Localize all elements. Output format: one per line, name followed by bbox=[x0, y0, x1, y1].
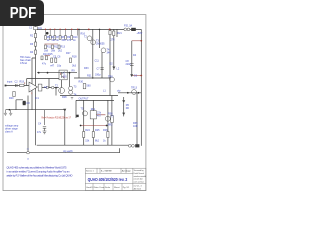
svg-text:0.5mA: 0.5mA bbox=[20, 62, 27, 65]
node J20 bbox=[106, 125, 108, 127]
wire protection verticals bbox=[76, 100, 108, 145]
node RD6 bbox=[71, 29, 72, 30]
svg-text:article by P.J. Walker of the: article by P.J. Walker of the Acoustical… bbox=[7, 173, 73, 177]
wire red rows mid bbox=[45, 44, 59, 56]
svg-text:Scale: Scale bbox=[105, 187, 111, 189]
BLUE LABELS bbox=[5, 25, 143, 161]
svg-text:R24: R24 bbox=[85, 129, 90, 132]
wire r38 branch bbox=[111, 96, 113, 146]
svg-text:R38: R38 bbox=[108, 113, 113, 116]
wire T1 base feed bbox=[62, 73, 70, 88]
wire output down to fuse bbox=[136, 93, 138, 146]
resistor R2 bbox=[34, 34, 36, 38]
svg-text:330: 330 bbox=[62, 39, 67, 42]
svg-text:8R2: 8R2 bbox=[108, 124, 113, 127]
svg-text:405: 405 bbox=[63, 76, 68, 79]
resistor R3 bbox=[34, 42, 36, 46]
node RD7 bbox=[77, 29, 78, 30]
svg-text:R19: R19 bbox=[20, 81, 25, 84]
svg-text:A + MAYBE: A + MAYBE bbox=[101, 170, 112, 173]
ground GND2 bbox=[9, 110, 12, 116]
wire gray drop 6 bbox=[71, 29, 73, 35]
drawing frame bbox=[3, 15, 146, 191]
resistor R19 input series bbox=[20, 84, 25, 86]
node RD1 bbox=[45, 29, 46, 30]
node J6 bbox=[127, 92, 129, 94]
wire zobel line bbox=[6, 109, 65, 111]
node J11 bbox=[109, 77, 110, 78]
svg-text:R4: R4 bbox=[30, 51, 34, 54]
svg-text:R25: R25 bbox=[95, 129, 100, 132]
wire left bias vertical bbox=[32, 58, 36, 110]
svg-text:340: 340 bbox=[107, 52, 112, 55]
svg-text:D6: D6 bbox=[126, 107, 130, 110]
resistor R9 bbox=[65, 36, 67, 40]
ground GND1 bbox=[4, 110, 7, 116]
wire protection rail bbox=[76, 99, 114, 101]
node J1 bbox=[46, 32, 49, 35]
wire mid horizontal TR1 bbox=[37, 72, 77, 74]
node J3 bbox=[99, 29, 101, 31]
transistor TR6b bbox=[91, 40, 96, 45]
svg-text:10n: 10n bbox=[38, 27, 43, 30]
svg-text:R11: R11 bbox=[47, 46, 52, 49]
resistor R22 bbox=[113, 31, 115, 36]
transistor TR7 bbox=[101, 48, 106, 53]
TRANSISTORS bbox=[59, 36, 137, 121]
svg-text:+50V: +50V bbox=[137, 32, 143, 35]
svg-text:2k2: 2k2 bbox=[58, 50, 63, 53]
wire red base drops bbox=[61, 73, 65, 79]
node J5 bbox=[9, 109, 11, 111]
resistor R21 bbox=[109, 31, 111, 35]
wire col x99 bbox=[100, 29, 103, 78]
wire bottom rail -50V bbox=[37, 144, 129, 146]
svg-text:R27: R27 bbox=[66, 52, 71, 55]
wire op-amp out bbox=[42, 87, 59, 89]
wire left input vertical bbox=[35, 26, 37, 58]
svg-text:L2: L2 bbox=[117, 68, 120, 71]
svg-text:Red = Protection PCB M12396 re: Red = Protection PCB M12396 rev 3 ? bbox=[42, 116, 72, 120]
COMPONENTS bbox=[13, 27, 115, 138]
relay RL1 box bbox=[90, 111, 96, 119]
svg-text:47u: 47u bbox=[42, 63, 47, 66]
svg-text:C4: C4 bbox=[38, 123, 42, 126]
node J12 bbox=[88, 29, 90, 31]
title text bbox=[88, 177, 128, 182]
wire cap branch bbox=[16, 100, 23, 110]
node J15 bbox=[140, 40, 142, 42]
wire input line bbox=[6, 85, 30, 87]
wire diode drop bbox=[64, 110, 66, 146]
svg-text:3k3: 3k3 bbox=[72, 65, 77, 68]
transistor TR12 bbox=[105, 116, 110, 121]
svg-text:Keith Snook: Keith Snook bbox=[134, 172, 144, 175]
node J8 black square terminal bbox=[76, 115, 78, 117]
capacitor C8 bbox=[130, 64, 134, 66]
node J18 bbox=[47, 72, 49, 74]
svg-text:10p: 10p bbox=[57, 65, 62, 68]
node J2 bbox=[78, 29, 80, 31]
PDF badge bbox=[0, 0, 44, 26]
wire gray drop 1 bbox=[44, 29, 46, 35]
svg-text:R20: R20 bbox=[9, 97, 14, 100]
resistor R8 bbox=[59, 36, 61, 40]
svg-text:R33: R33 bbox=[84, 67, 89, 70]
title block small text bbox=[86, 170, 131, 189]
svg-text:QUAD 405/102/520 rev. 2: QUAD 405/102/520 rev. 2 bbox=[88, 177, 128, 182]
fuse FS1 top bbox=[124, 28, 136, 31]
svg-text:rev 02 - 4: rev 02 - 4 bbox=[134, 185, 142, 188]
node J14 bbox=[140, 75, 142, 77]
wire gray drop 7 bbox=[77, 29, 79, 35]
svg-text:TR13: TR13 bbox=[131, 87, 138, 90]
node J13 bbox=[109, 29, 111, 31]
svg-text:appr: appr bbox=[127, 170, 131, 173]
svg-text:47u: 47u bbox=[37, 131, 42, 134]
svg-text:C6: C6 bbox=[57, 56, 61, 59]
svg-text:R2: R2 bbox=[30, 35, 34, 38]
wire bottom earth rail bbox=[7, 148, 120, 152]
resistor R4 bbox=[34, 50, 36, 54]
node RD5 bbox=[65, 29, 66, 30]
svg-text:o/p: o/p bbox=[117, 90, 121, 93]
wire gray drop 2 bbox=[49, 29, 51, 35]
node J7 bbox=[138, 92, 140, 94]
resistor R7 bbox=[54, 36, 56, 40]
fuse FS2 bottom bbox=[128, 144, 139, 147]
capacitor C2 input bbox=[15, 84, 17, 87]
svg-text:330p: 330p bbox=[95, 74, 101, 77]
capacitor network box bbox=[38, 84, 42, 91]
svg-text:QUAD 405 schematic as publishe: QUAD 405 schematic as published in Wirel… bbox=[7, 166, 68, 170]
svg-text:Date: Draw: Date: Draw bbox=[94, 186, 105, 189]
transistor TR5 bbox=[69, 90, 73, 94]
wire gray drop 4 bbox=[59, 29, 61, 35]
svg-text:o/p earth: o/p earth bbox=[63, 150, 73, 153]
wire col x117 bbox=[116, 29, 118, 37]
svg-text:C3: C3 bbox=[27, 102, 31, 105]
svg-text:D4: D4 bbox=[133, 54, 137, 57]
resistor R38 bbox=[111, 116, 114, 123]
node J17 bbox=[38, 72, 40, 74]
node J4 bbox=[109, 29, 111, 31]
red rail junction dots bbox=[45, 29, 79, 30]
resistor R20 bbox=[13, 92, 15, 97]
transistor TR3 bbox=[59, 88, 65, 94]
svg-text:FS1 3A: FS1 3A bbox=[124, 25, 133, 28]
svg-text:R12: R12 bbox=[54, 46, 59, 49]
svg-text:R28: R28 bbox=[62, 96, 67, 99]
svg-text:T2: T2 bbox=[55, 85, 58, 88]
svg-text:OUTPUT: OUTPUT bbox=[79, 98, 90, 101]
terminal output circle bbox=[27, 152, 30, 154]
wire mid horizontal TR2 bbox=[60, 95, 118, 97]
transistor TR1 boxed bbox=[59, 70, 67, 80]
transistor TR4 bbox=[69, 86, 73, 90]
svg-text:R18: R18 bbox=[72, 56, 77, 59]
wire right rail bbox=[140, 29, 142, 145]
node RD2 bbox=[50, 29, 51, 30]
capacitor C1 top-left bbox=[34, 27, 38, 30]
diode pair open circles bbox=[46, 86, 54, 89]
svg-text:class A: class A bbox=[5, 131, 13, 134]
svg-text:Series 1: Series 1 bbox=[86, 170, 94, 173]
diode D1 bbox=[63, 109, 66, 112]
svg-text:C2: C2 bbox=[15, 81, 19, 84]
svg-text:A4 sheet: A4 sheet bbox=[134, 188, 142, 191]
wire red protection links bbox=[81, 115, 107, 126]
svg-text:e2: e2 bbox=[27, 158, 29, 160]
svg-text:T7: T7 bbox=[111, 116, 114, 119]
svg-text:8k2: 8k2 bbox=[95, 140, 100, 143]
WIRES-MAIN bbox=[6, 26, 142, 153]
svg-text:RL1: RL1 bbox=[91, 108, 96, 111]
svg-text:4u7: 4u7 bbox=[97, 115, 102, 118]
svg-text:2N3055: 2N3055 bbox=[96, 43, 105, 46]
resistor R16 bbox=[51, 58, 53, 63]
wire col x113 bbox=[113, 29, 115, 70]
wire output line bbox=[118, 92, 141, 94]
resistor R10 bbox=[71, 36, 73, 40]
svg-text:1k: 1k bbox=[73, 39, 76, 42]
node out junction bbox=[55, 87, 57, 89]
resistor R26 bbox=[107, 132, 109, 138]
resistor R12 bbox=[52, 45, 54, 49]
svg-text:com archive: com archive bbox=[134, 180, 144, 183]
wire right col feedback bbox=[92, 29, 94, 78]
title block bbox=[85, 168, 146, 190]
wire left col down bbox=[35, 58, 37, 145]
svg-text:R26: R26 bbox=[103, 129, 108, 132]
svg-text:TR8: TR8 bbox=[108, 76, 113, 79]
wire clamp branch bbox=[123, 97, 125, 116]
svg-text:R30: R30 bbox=[79, 81, 84, 84]
svg-text:e1: e1 bbox=[27, 149, 29, 151]
red annotation note bbox=[42, 116, 72, 120]
node J19 bbox=[80, 125, 82, 127]
wire red link D4 bbox=[132, 75, 142, 77]
svg-text:10R: 10R bbox=[133, 125, 138, 128]
junction dots bbox=[9, 29, 140, 127]
terminal input bbox=[5, 85, 7, 87]
svg-text:560: 560 bbox=[87, 85, 92, 88]
svg-text:Scanned by: Scanned by bbox=[134, 170, 144, 172]
transistor TR6 bbox=[87, 36, 92, 41]
svg-text:T4: T4 bbox=[74, 94, 77, 97]
svg-text:R21: R21 bbox=[117, 32, 122, 35]
wire red op-amp stub bbox=[25, 82, 32, 94]
resistor R18 bbox=[70, 58, 72, 63]
node RD3 bbox=[54, 29, 55, 30]
transistor TR9 bbox=[83, 111, 88, 116]
wire feedback top bbox=[27, 79, 59, 96]
wire col x79 bbox=[78, 29, 80, 78]
svg-text:D3: D3 bbox=[134, 75, 138, 78]
resistor R24 bbox=[83, 132, 85, 138]
node RD4 bbox=[59, 29, 60, 30]
WIRES-RED bbox=[45, 29, 77, 35]
svg-text:in an article entitled "Curren: in an article entitled "Current Dumping … bbox=[7, 170, 71, 174]
svg-text:Pg: 1/1: Pg: 1/1 bbox=[123, 187, 130, 189]
svg-text:R3: R3 bbox=[30, 43, 34, 46]
wire op-amp gnd vertical bbox=[27, 96, 29, 152]
node J16 bbox=[69, 72, 71, 74]
svg-text:R9: R9 bbox=[72, 70, 76, 73]
transistor TR13 output bbox=[132, 90, 137, 95]
diode D3 bbox=[130, 74, 133, 77]
svg-text:IC1: IC1 bbox=[35, 97, 39, 100]
svg-text:220n: 220n bbox=[126, 63, 132, 66]
wire right cap branch bbox=[131, 41, 133, 76]
capacitor C3 electrolytic bbox=[23, 101, 26, 105]
svg-text:L1: L1 bbox=[103, 90, 106, 93]
ground GND3 bbox=[71, 98, 73, 99]
wire gray drop 5 bbox=[65, 29, 67, 35]
resistor R6 bbox=[49, 36, 51, 40]
node J9 bbox=[23, 101, 26, 104]
wire gray drop 3 bbox=[54, 29, 56, 35]
svg-text:Used DI: Used DI bbox=[86, 187, 94, 189]
op-amp U1 bbox=[29, 82, 38, 92]
title block right column text bbox=[134, 170, 146, 190]
svg-text:R31: R31 bbox=[87, 75, 92, 78]
svg-text:270: 270 bbox=[111, 39, 116, 42]
svg-text:1k8: 1k8 bbox=[44, 50, 49, 53]
svg-text:Sheet: Sheet bbox=[114, 186, 120, 189]
diode D5 bbox=[122, 100, 125, 103]
resistor R13 bbox=[58, 45, 60, 49]
wire right col mid bbox=[109, 29, 111, 95]
red junction dots on rail bbox=[88, 29, 142, 77]
svg-text:n47: n47 bbox=[50, 65, 55, 68]
diode D2 bbox=[112, 67, 115, 70]
wire feedback rail bbox=[74, 77, 110, 79]
resistor R14 bbox=[41, 56, 43, 60]
resistor R11 bbox=[44, 45, 46, 49]
svg-text:1k: 1k bbox=[103, 140, 106, 143]
capacitor C7 bbox=[101, 68, 104, 70]
wire top rail +50V bbox=[36, 28, 142, 30]
wire red link C8 bbox=[132, 40, 142, 42]
resistor R17 bbox=[55, 58, 57, 63]
node J10 bbox=[92, 77, 93, 78]
resistor R5 bbox=[44, 36, 46, 40]
svg-text:D2: D2 bbox=[110, 63, 114, 66]
svg-text:R16: R16 bbox=[81, 33, 86, 36]
capacitor C4 gnd bbox=[43, 110, 47, 134]
note paragraph bottom-left bbox=[7, 166, 73, 178]
svg-text:T3: T3 bbox=[74, 86, 77, 89]
svg-text:C11: C11 bbox=[95, 60, 100, 63]
svg-text:circuits dot: circuits dot bbox=[134, 178, 144, 181]
svg-text:R13: R13 bbox=[61, 46, 66, 49]
svg-text:C7: C7 bbox=[97, 68, 101, 71]
diode D6 bbox=[122, 113, 125, 116]
svg-text:39k: 39k bbox=[51, 50, 56, 53]
resistor R30 feedback bbox=[83, 84, 86, 89]
svg-text:15k: 15k bbox=[85, 140, 90, 143]
transistor TR8 bbox=[110, 77, 115, 82]
svg-text:input: input bbox=[7, 81, 13, 84]
resistor R15 bbox=[46, 56, 48, 60]
resistor R25 bbox=[92, 132, 94, 138]
svg-text:wireless-world: wireless-world bbox=[134, 175, 146, 178]
